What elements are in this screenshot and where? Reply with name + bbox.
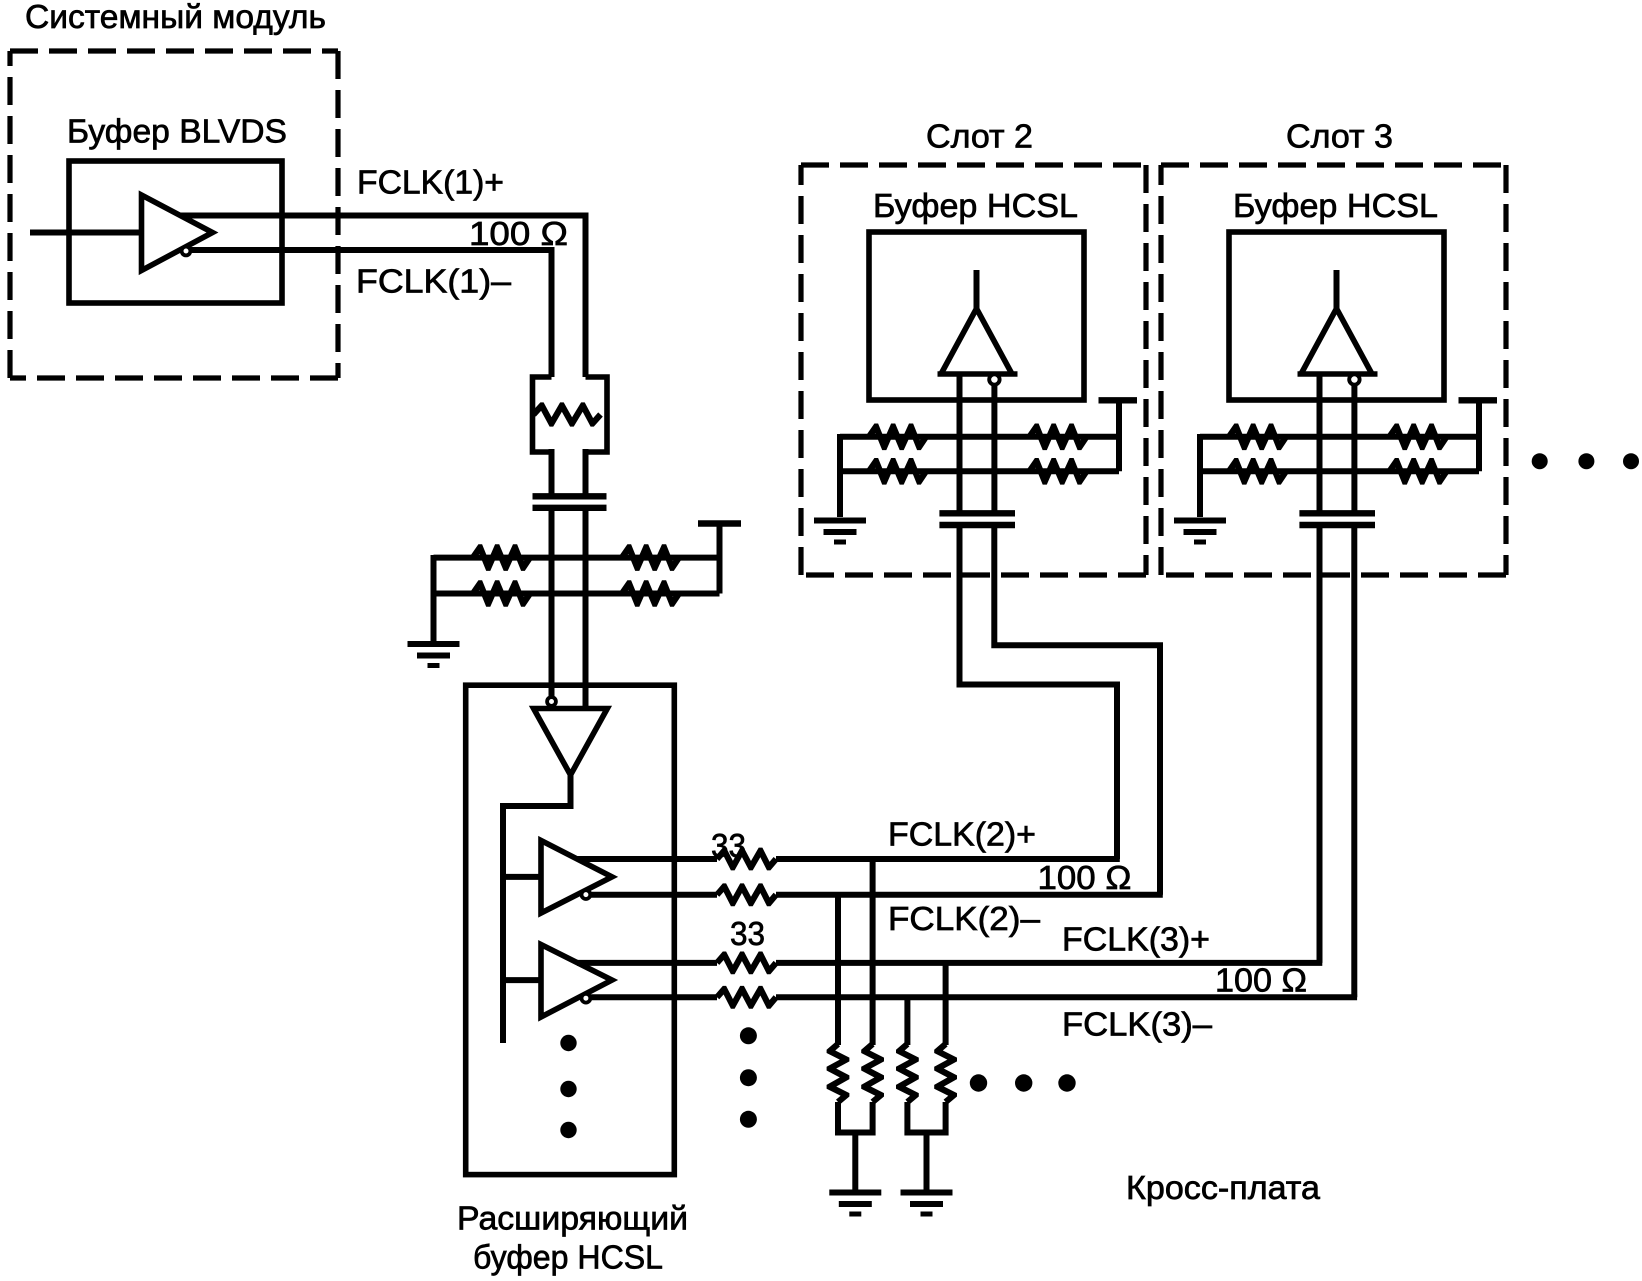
system module dashed box [10,51,338,378]
slot 2 power rail T symbol [1099,397,1138,403]
svg-text:Расширяющий: Расширяющий [457,1200,688,1237]
wire FCLK(3)+ [577,960,717,966]
svg-text:Слот 2: Слот 2 [926,118,1033,155]
buffer 2 bubble [582,994,591,1003]
slot 2 wire input + [957,374,963,511]
slot 3 resistor upper-right [1387,424,1449,451]
slot 2 wire from power rail [1116,400,1122,471]
wire FCLK(2)- riser to slot 2 [994,526,1160,895]
input receiver triangle (inverted) [534,709,608,776]
ground slot 2 [814,521,866,543]
input wire [30,230,140,236]
ellipsis dots inside buffer box [560,1035,576,1138]
resistor 33 Ohm FCLK(2)+ [715,848,779,871]
input bubble [547,697,556,706]
wire FCLK(2)- [591,892,718,898]
expanding buffer box [466,685,675,1174]
wire FCLK(3)+ riser to slot 3 [1317,526,1323,963]
wire to expanding buffer input + [549,511,555,697]
slot 2 bias upper line [840,434,1119,440]
svg-text:FCLK(2)+: FCLK(2)+ [888,816,1036,853]
slot 2 bias lower line [840,468,1119,474]
ground slot 3 [1174,521,1226,543]
wire FCLK(2)+ riser to slot 2 [960,526,1118,859]
resistor 100 Ohm termination box [533,377,608,452]
wire FCLK(3)- riser to slot 3 [1351,526,1357,997]
ground pulldown pair 1 [829,1193,881,1215]
resistor upper-right [619,544,681,571]
slot 3 receiver triangle [1298,371,1378,377]
ellipsis dots right of pulldown resistors [970,1074,1076,1091]
slot 3 resistor upper-left [1226,424,1288,451]
power rail T symbol [698,520,741,526]
svg-text:Буфер HCSL: Буфер HCSL [1233,187,1438,224]
buffer 2 triangle [541,945,612,1018]
slot 3 bias upper line [1200,434,1479,440]
stub from FCLK(3)- [904,997,910,1045]
slot 3 coupling capacitor [1299,513,1375,525]
svg-text:FCLK(1)–: FCLK(1)– [356,263,512,300]
slot 2 wire input - [991,385,997,511]
resistor 33 Ohm FCLK(3)- [715,986,779,1009]
ground bias network [408,644,460,666]
buffer 1 triangle [541,841,612,914]
slot 2 coupling capacitor [939,513,1015,525]
slot 3 wire from power rail [1476,400,1482,471]
slot 3 wire input - [1351,385,1357,511]
wire FCLK(2)+ [577,856,717,862]
bias network upper line [434,555,720,561]
slot 2 resistor lower-right [1027,458,1089,485]
svg-text:Системный модуль: Системный модуль [25,0,326,35]
wire receiver output to bus [503,772,571,1043]
slot 3 wire input + [1317,374,1323,511]
slot 3 HCSL buffer box [1229,232,1444,400]
slot 2 receiver output stub [974,270,980,311]
slot 2 resistor lower-left [866,458,928,485]
pulldown resistor 1 [827,1042,850,1105]
slot 3 resistor lower-right [1387,458,1449,485]
slot 2 resistor upper-left [866,424,928,451]
inverting output bubble [182,247,191,256]
pulldown resistor 3 [896,1042,919,1105]
svg-text:100 Ω: 100 Ω [1215,962,1307,999]
slot 3 receiver output stub [1334,270,1340,311]
resistor zigzag inside box [531,402,603,426]
slot 2 wire to ground [837,434,843,517]
resistor lower-left [470,580,532,607]
wire to expanding buffer input - [583,511,589,746]
fork to ground 2 [907,1102,945,1190]
ellipsis dots right of expanding buffer [740,1027,757,1128]
bias network lower line [434,591,720,597]
stub from FCLK(2)+ [870,859,876,1045]
svg-text:33: 33 [730,915,765,952]
fork to ground 1 [838,1102,873,1190]
resistor lower-right [619,580,681,607]
wire below box left [549,449,555,494]
slot 2 resistor upper-right [1027,424,1089,451]
svg-text:FCLK(1)+: FCLK(1)+ [357,164,504,201]
pulldown resistor 2 [861,1042,884,1105]
svg-text:100 Ω: 100 Ω [469,215,568,252]
slot 3 dashed box [1161,165,1506,575]
svg-text:Слот 3: Слот 3 [1286,118,1393,155]
wire to ground [431,555,437,641]
svg-text:Буфер HCSL: Буфер HCSL [873,187,1078,224]
wire tap to buffer 2 [503,977,541,983]
coupling capacitor C1 [533,496,607,508]
wire FCLK(3)- [591,994,718,1000]
resistor 33 Ohm FCLK(2)- [715,883,779,906]
svg-text:FCLK(3)+: FCLK(3)+ [1062,921,1210,958]
slot 3 resistor lower-left [1226,458,1288,485]
wire FCLK(1)- [190,250,552,377]
svg-text:буфер HCSL: буфер HCSL [473,1239,663,1276]
wire FCLK(1)+ [180,216,586,378]
slot 3 input bubble [1349,374,1359,384]
svg-text:Буфер BLVDS: Буфер BLVDS [67,113,287,150]
slot 2 input bubble [989,374,999,384]
ellipsis dots right of slot 3 [1532,453,1639,469]
slot 2 dashed box [801,165,1146,575]
svg-text:100 Ω: 100 Ω [1038,859,1132,896]
wire below box right [583,449,589,494]
resistor upper-left [470,544,532,571]
svg-text:FCLK(2)–: FCLK(2)– [888,900,1041,937]
ground pulldown pair 2 [901,1193,953,1215]
wire from power rail [717,524,723,594]
slot 2 HCSL buffer box [869,232,1084,400]
slot 2 receiver triangle [938,371,1018,377]
svg-text:Кросс-плата: Кросс-плата [1126,1169,1321,1206]
stub from FCLK(2)- [835,895,841,1045]
BLVDS driver triangle [142,195,213,271]
buffer 1 bubble [582,890,591,899]
BLVDS buffer box [69,161,282,303]
slot 3 power rail T symbol [1459,397,1498,403]
slot 3 bias lower line [1200,468,1479,474]
resistor 33 Ohm FCLK(3)+ [715,952,779,975]
pulldown resistor 4 [934,1042,957,1105]
svg-text:FCLK(3)–: FCLK(3)– [1062,1006,1213,1043]
stub from FCLK(3)+ [943,963,949,1045]
wire tap to buffer 1 [503,874,541,880]
slot 3 wire to ground [1197,434,1203,517]
